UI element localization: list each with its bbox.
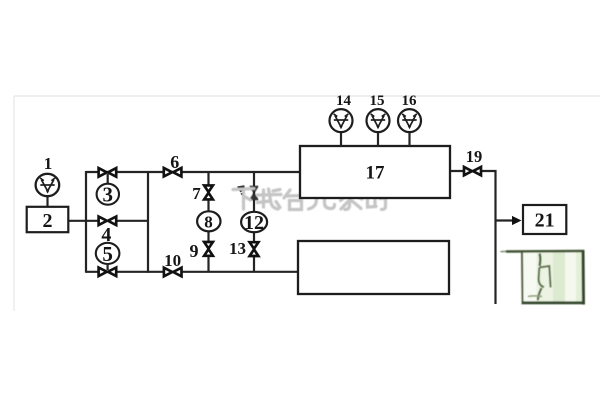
gauge 1 xyxy=(36,174,60,196)
wire: branch line through 11-12-13 x=254 xyxy=(253,172,255,272)
svg-text:15: 15 xyxy=(370,93,385,109)
svg-text:21: 21 xyxy=(535,210,555,232)
svg-text:2: 2 xyxy=(43,210,53,232)
instrument circle 5 xyxy=(96,243,120,264)
svg-text:9: 9 xyxy=(190,241,199,261)
instrument circle 8 xyxy=(197,211,220,231)
svg-text:7: 7 xyxy=(192,184,201,203)
gauge stems 14,15,16 xyxy=(341,131,410,146)
svg-text:17: 17 xyxy=(366,163,386,184)
svg-text:14: 14 xyxy=(336,93,352,109)
svg-text:10: 10 xyxy=(164,251,181,270)
valve V19 xyxy=(464,167,481,175)
valve V10 xyxy=(164,268,182,277)
wire: branch line through 7-8-9 x=208.5 xyxy=(207,172,209,272)
svg-text:3: 3 xyxy=(103,183,114,207)
valve V6 xyxy=(164,168,182,177)
wire: top manifold line y=172 xyxy=(86,171,301,173)
valve V3 xyxy=(99,168,117,177)
stem to circle 3 xyxy=(107,174,109,184)
wire: middle branch from tank 2 to right manifold xyxy=(67,220,148,222)
instrument circle 3 xyxy=(97,184,119,205)
svg-text:1: 1 xyxy=(44,154,53,173)
svg-text:13: 13 xyxy=(229,239,246,258)
svg-text:16: 16 xyxy=(402,93,418,109)
valve V5 xyxy=(99,268,117,277)
valve V11 vertical (smudged under watermark) xyxy=(250,187,257,200)
wire: left manifold vertical x=86 xyxy=(85,171,87,273)
wire: right manifold vertical x=148 xyxy=(147,171,149,273)
box 21 xyxy=(523,205,566,234)
svg-text:12: 12 xyxy=(244,212,264,234)
valve V13 vertical xyxy=(250,242,259,256)
wire: bottom manifold line y=271.8 xyxy=(86,271,299,273)
valve V4 xyxy=(99,217,117,226)
frame of pasted screenshot xyxy=(14,96,600,311)
lower box (18) xyxy=(298,241,449,294)
svg-text:5: 5 xyxy=(102,242,113,266)
valve V9 vertical xyxy=(204,242,213,256)
stem circle5 to valve xyxy=(106,263,108,270)
gauge 1 stem xyxy=(46,195,48,207)
watermark 下载后无水印 xyxy=(233,189,386,210)
gauge 14 xyxy=(330,109,353,132)
box 2 xyxy=(27,207,69,232)
svg-text:8: 8 xyxy=(204,212,213,231)
instrument circle 12 xyxy=(241,212,267,232)
dark smudge near valve 11 xyxy=(238,186,245,195)
gauge 15 xyxy=(367,109,390,132)
wire: outlet from box 17 to valve 19 then corner xyxy=(450,171,496,304)
gauge 16 xyxy=(398,109,421,132)
wire: arrow feed into box 21 xyxy=(496,219,514,221)
arrowhead into box 21 xyxy=(512,216,522,225)
valve V7 vertical xyxy=(204,185,213,199)
box 17 xyxy=(300,146,450,198)
svg-text:19: 19 xyxy=(466,147,483,166)
green photo fragment bottom right xyxy=(501,251,585,305)
